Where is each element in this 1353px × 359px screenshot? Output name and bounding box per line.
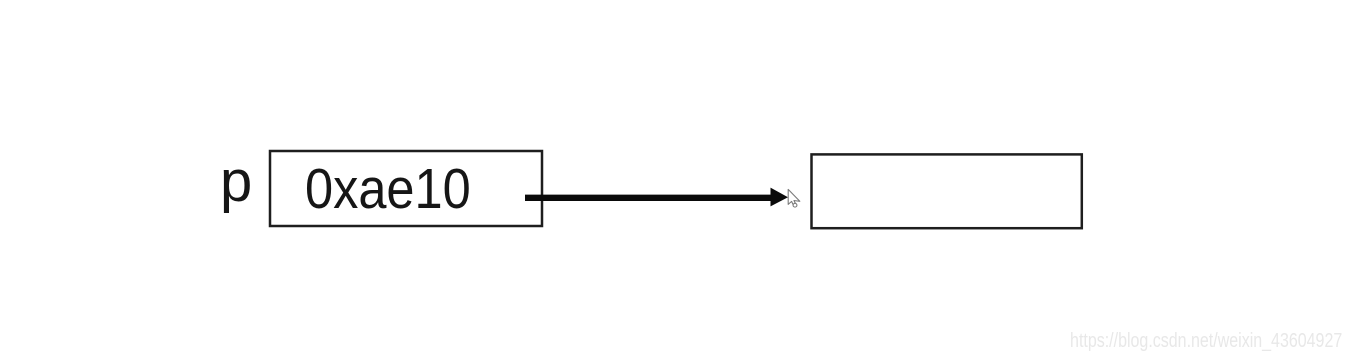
- label p: [220, 153, 260, 213]
- pointee box (right, empty): [812, 154, 1082, 228]
- arrowhead: [771, 188, 789, 207]
- mouse cursor: [788, 189, 800, 207]
- watermark: [1070, 330, 1342, 353]
- wire: arrow shaft: [525, 195, 773, 201]
- value 0xae10: [305, 163, 482, 216]
